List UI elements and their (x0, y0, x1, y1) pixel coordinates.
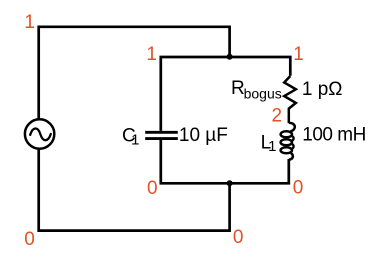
svg-text:0: 0 (293, 178, 304, 199)
svg-text:1 pΩ: 1 pΩ (302, 79, 343, 100)
svg-text:0: 0 (24, 229, 35, 250)
svg-text:1: 1 (146, 44, 157, 65)
svg-text:2: 2 (272, 106, 283, 127)
svg-text:1: 1 (293, 44, 304, 65)
svg-text:0: 0 (147, 178, 158, 199)
svg-text:1: 1 (131, 132, 139, 149)
svg-text:1: 1 (268, 138, 276, 155)
svg-text:bogus: bogus (244, 86, 282, 102)
svg-text:0: 0 (233, 227, 244, 248)
svg-text:1: 1 (24, 12, 35, 33)
svg-text:100 mH: 100 mH (302, 125, 366, 146)
svg-text:10 µF: 10 µF (179, 125, 228, 146)
